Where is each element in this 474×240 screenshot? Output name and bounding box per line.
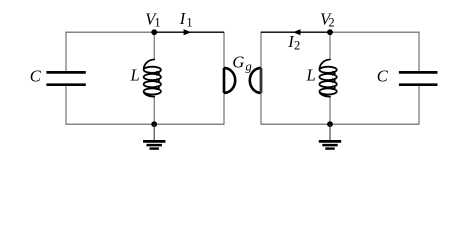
svg-text:C: C [30, 67, 42, 86]
wire: right loop left vertical [260, 32, 262, 125]
capacitor C1 left: top plate [46, 71, 85, 74]
svg-text:G: G [232, 53, 244, 72]
gyrator Gg: right D element (chord + arc on x=261) [250, 68, 261, 93]
inductor L2 (right coil) [319, 60, 336, 97]
wire: right coil bottom to bottom wire [329, 96, 331, 124]
wire: black top segment left corner to V2 with current arrow I2 [261, 31, 330, 33]
gyrator Gg: left D element (chord + arc on x=224) [224, 68, 235, 93]
svg-text:L: L [130, 66, 140, 85]
ground (right) [329, 124, 331, 140]
wire: black top segment V1 to right corner with current arrow I1 [154, 31, 224, 33]
wire: right loop right vertical (top) [418, 32, 420, 72]
wire: left loop bottom [66, 123, 225, 125]
arrowhead I1 [184, 29, 192, 35]
wire: right loop top (node V2 to right corner) [330, 31, 420, 33]
capacitor C2 right: bottom plate [399, 83, 438, 86]
svg-text:g: g [245, 59, 252, 74]
svg-text:1: 1 [186, 15, 192, 29]
capacitor C2 right: top plate [399, 71, 438, 74]
wire: left loop right vertical [223, 32, 225, 125]
svg-text:2: 2 [294, 39, 300, 53]
wire: left loop left vertical (top) [65, 32, 67, 72]
wire: left loop top (corner to node V1) [66, 31, 155, 33]
svg-text:C: C [377, 67, 389, 86]
node dot V1 [151, 29, 157, 35]
arrowhead I2 (pointing left) [293, 29, 301, 35]
wire: coil bottom to bottom wire [153, 96, 155, 124]
capacitor C1 left: bottom plate [46, 83, 85, 86]
ground (left) [153, 124, 155, 140]
inductor L1 (left coil) [144, 60, 161, 97]
svg-text:L: L [306, 66, 316, 85]
node dot V2 [327, 29, 333, 35]
wire: V1 node to coil top [153, 32, 155, 59]
junction dot right ground [327, 121, 333, 127]
wire: left loop left vertical (bottom) [65, 86, 67, 124]
wire: right loop bottom [261, 123, 420, 125]
svg-text:1: 1 [154, 15, 160, 29]
wire: V2 node to coil top [329, 32, 331, 59]
wire: right loop right vertical (bottom) [418, 86, 420, 124]
svg-text:2: 2 [328, 15, 334, 29]
junction dot left ground [151, 121, 157, 127]
